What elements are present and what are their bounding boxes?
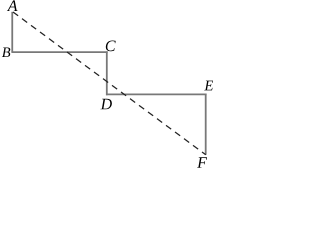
wire segment AB (vertical)	[11, 12, 13, 52]
node label B	[2, 48, 10, 58]
node label D	[100, 99, 112, 110]
wire segment DE (horizontal)	[106, 93, 207, 95]
node label E	[204, 81, 213, 91]
node label A	[7, 0, 18, 11]
node label C	[106, 41, 116, 52]
node label F	[197, 157, 207, 168]
wire segment CD (vertical)	[106, 51, 108, 95]
wire segment EF (vertical)	[205, 94, 207, 155]
dashed diagonal AF	[13, 12, 206, 155]
wire segment BC (horizontal)	[11, 51, 107, 53]
